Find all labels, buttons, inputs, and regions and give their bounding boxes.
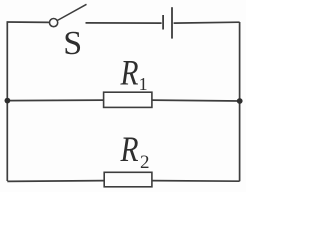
node B bbox=[237, 98, 243, 104]
wire bbox=[7, 21, 50, 23]
svg-text:R: R bbox=[120, 54, 139, 93]
svg-text:S: S bbox=[63, 25, 82, 62]
wire bbox=[7, 180, 104, 183]
svg-text:2: 2 bbox=[140, 152, 150, 173]
wire bbox=[86, 22, 162, 24]
wire bbox=[239, 22, 241, 181]
svg-text:1: 1 bbox=[139, 74, 148, 94]
wire bbox=[7, 99, 103, 102]
wire bbox=[152, 99, 240, 102]
wire bbox=[6, 22, 8, 181]
resistor R2 bbox=[104, 130, 152, 187]
resistor R1 bbox=[104, 54, 152, 108]
battery B1 bbox=[163, 7, 172, 38]
wire bbox=[152, 180, 240, 183]
node A bbox=[5, 98, 11, 104]
svg-text:R: R bbox=[120, 130, 139, 169]
wire bbox=[174, 21, 240, 24]
switch S bbox=[50, 4, 87, 62]
